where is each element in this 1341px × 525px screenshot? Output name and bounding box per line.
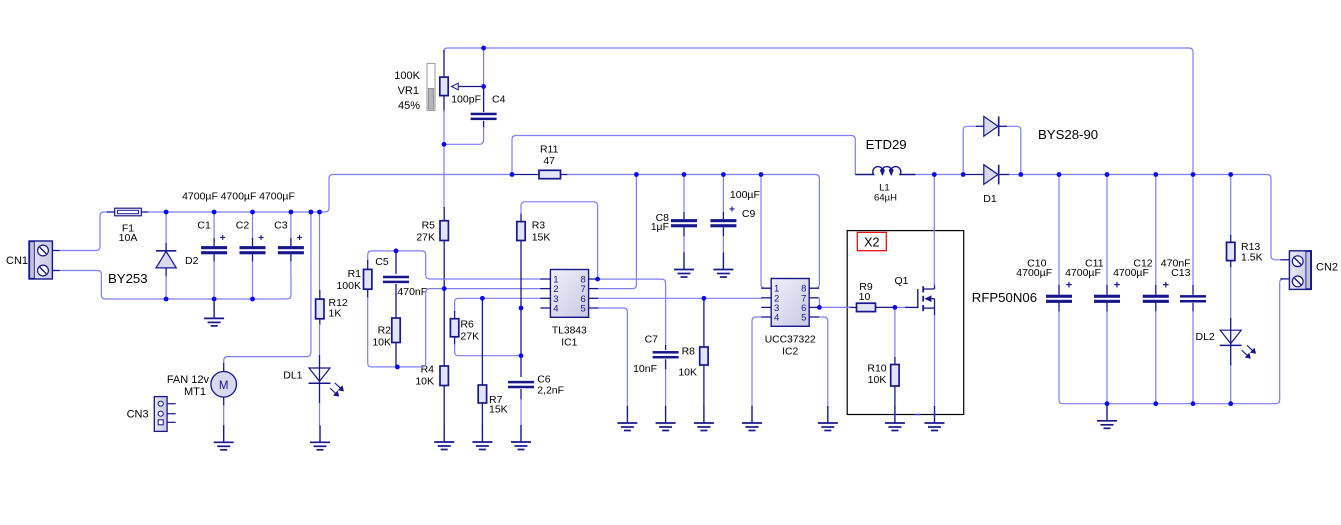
- ground C9: [722, 253, 724, 270]
- slider widget VR1: [427, 63, 435, 110]
- capacitor C2 4700uF: [252, 238, 254, 246]
- wire IC1 pin4 to C6: [520, 308, 522, 377]
- ground R4: [443, 425, 445, 442]
- ground IC2 pin5: [827, 406, 829, 423]
- junction C12 top: [1153, 172, 1158, 177]
- connector CN2: [1280, 251, 1311, 290]
- wire D2 anode to rail: [165, 276, 167, 299]
- svg-text:10nF: 10nF: [633, 363, 657, 375]
- svg-text:+: +: [258, 233, 264, 244]
- junction D1 cathode: [1018, 172, 1023, 177]
- wire fan to ground: [223, 405, 225, 426]
- ground input: [213, 301, 215, 318]
- capacitor C9 100uF: [722, 212, 724, 219]
- svg-text:C2: C2: [236, 219, 250, 231]
- label box X2: [857, 232, 886, 250]
- svg-text:27K: 27K: [460, 331, 479, 343]
- junction VCC IC1: [634, 172, 639, 177]
- resistor R10 10K: [894, 307, 896, 358]
- resistor R1 100K: [367, 260, 369, 269]
- motor MT1 fan: [223, 363, 225, 372]
- svg-text:C13: C13: [1171, 267, 1190, 279]
- ground R8: [703, 406, 705, 423]
- svg-text:C7: C7: [645, 334, 659, 346]
- capacitor C13 470nF: [1192, 285, 1194, 295]
- wire Q1 drain to rail: [933, 175, 935, 287]
- connector CN3: [154, 397, 175, 432]
- wire VR1 bottom node: [443, 110, 445, 208]
- wire CN1 pin1 to fuse F1: [60, 212, 109, 251]
- wire IC1 pin5 to ground: [598, 308, 627, 407]
- wire output bottom rail: [1107, 279, 1284, 404]
- junction R8 top: [702, 296, 707, 301]
- wire C9 bottom: [722, 236, 724, 253]
- wire C8 bottom: [683, 236, 685, 253]
- resistor R11 47: [512, 174, 539, 176]
- junction Q1 gate: [893, 305, 898, 310]
- wire input bottom rail: [166, 276, 291, 299]
- svg-text:DL1: DL1: [283, 369, 302, 381]
- junction fan tap: [309, 210, 314, 215]
- svg-text:Q1: Q1: [895, 275, 909, 287]
- capacitor C12 4700µF: [1155, 285, 1157, 295]
- resistor R3 15K: [520, 213, 522, 222]
- ground output: [1106, 404, 1108, 421]
- stray dash on X2 bottom edge: [915, 414, 921, 416]
- svg-text:+: +: [1066, 280, 1072, 292]
- capacitor C3 4700uF: [290, 238, 292, 246]
- diode D2: [165, 243, 167, 251]
- svg-text:4700µF: 4700µF: [1065, 267, 1101, 279]
- junction C1 bottom: [212, 297, 217, 302]
- svg-text:CN3: CN3: [127, 409, 149, 421]
- junction R12 top: [317, 210, 322, 215]
- capacitor C1 4700uF: [213, 238, 215, 246]
- junction R13 top: [1228, 172, 1233, 177]
- svg-text:+: +: [297, 233, 303, 244]
- capacitor C10 4700µF: [1058, 285, 1060, 295]
- wire C4 bottom to VR1 bottom: [444, 127, 484, 144]
- svg-text:4: 4: [553, 304, 558, 315]
- junction C12 bottom: [1153, 401, 1158, 406]
- svg-text:DL2: DL2: [1196, 331, 1215, 343]
- svg-text:1K: 1K: [329, 308, 342, 320]
- svg-text:R2: R2: [378, 325, 392, 337]
- wire C11 top: [1106, 175, 1108, 287]
- junction C8 top: [682, 172, 687, 177]
- wire C2 top lead: [252, 212, 254, 239]
- wire crossing X2 bottom edge at R10 ground: [894, 412, 896, 418]
- LED DL2: [1230, 318, 1232, 366]
- wire C3 top lead: [290, 212, 292, 239]
- wire IC1 pin8 to C7: [598, 279, 666, 346]
- diode D1 lower: [963, 174, 984, 176]
- svg-text:M: M: [219, 380, 229, 392]
- ground R10: [894, 406, 896, 423]
- resistor R9 10: [850, 306, 857, 308]
- junction C3 top: [289, 210, 294, 215]
- svg-text:TL3843: TL3843: [552, 326, 587, 337]
- ground Q1 source: [934, 406, 936, 423]
- junction Q1 drain: [932, 172, 937, 177]
- svg-text:15K: 15K: [489, 404, 508, 416]
- wire D1 bypass upper branch: [963, 126, 977, 174]
- junction R2 bottom: [395, 365, 400, 370]
- svg-text:MT1: MT1: [184, 386, 206, 398]
- svg-text:4700µF: 4700µF: [182, 191, 218, 203]
- svg-text:IC2: IC2: [782, 347, 798, 358]
- ground DL1: [319, 425, 321, 442]
- svg-text:IC1: IC1: [561, 338, 577, 349]
- wire R2 bottom to IC1 pin2: [397, 289, 541, 367]
- wire R1 bottom: [368, 297, 398, 367]
- svg-text:5: 5: [801, 313, 806, 324]
- svg-text:45%: 45%: [398, 100, 420, 112]
- junction C2 top: [250, 210, 255, 215]
- svg-text:5: 5: [581, 304, 586, 315]
- svg-text:ETD29: ETD29: [866, 137, 907, 152]
- svg-text:BY253: BY253: [108, 271, 148, 286]
- ground IC2 pin4: [751, 406, 753, 423]
- svg-text:CN2: CN2: [1316, 262, 1338, 274]
- junction R6 bottom: [519, 353, 524, 358]
- diode D1 upper: [976, 125, 984, 127]
- svg-text:2,2nF: 2,2nF: [537, 385, 564, 397]
- junction R7 top: [480, 296, 485, 301]
- ground R7: [481, 425, 483, 442]
- wire R13 to DL2: [1230, 267, 1232, 320]
- wire IC2 pin6 to R9: [819, 306, 851, 308]
- svg-text:FAN 12v: FAN 12v: [167, 374, 210, 386]
- wire R6 bottom to C6: [455, 344, 521, 356]
- svg-text:100K: 100K: [394, 70, 420, 82]
- connector CN1: [29, 241, 60, 279]
- wire C10 bottom to bottom rail: [1059, 311, 1107, 404]
- wire C13 bottom: [1192, 311, 1194, 404]
- wire IC2 pin4 to ground: [752, 317, 761, 407]
- wire C10 top: [1058, 175, 1060, 287]
- svg-text:100K: 100K: [336, 280, 361, 292]
- wire C11 bottom: [1106, 311, 1108, 404]
- wire crossing X2 top edge at Q1 drain: [933, 228, 935, 234]
- junction C4 top: [481, 46, 486, 51]
- wire C1 bottom lead: [213, 261, 215, 299]
- junction IC2 VDD: [759, 172, 764, 177]
- op-amp U2 UCC37322 IC2 body: [761, 279, 819, 327]
- wire DL1 to ground: [319, 403, 321, 426]
- ground C8: [683, 253, 685, 270]
- wire C3 bottom lead: [290, 261, 292, 277]
- wire C1 top lead: [213, 212, 215, 239]
- svg-text:C5: C5: [375, 256, 389, 268]
- resistor R6 27K: [454, 311, 456, 319]
- svg-text:R6: R6: [460, 319, 474, 331]
- resistor R5 27K: [443, 207, 445, 221]
- wire top feedback net: [444, 48, 1193, 172]
- transistor Q1 RFP50N06: [905, 306, 918, 308]
- svg-text:10K: 10K: [868, 374, 887, 386]
- junction C13 bottom: [1191, 401, 1196, 406]
- svg-text:1.5K: 1.5K: [1241, 252, 1263, 264]
- capacitor C5 470nF: [395, 251, 397, 274]
- ground C6: [520, 425, 522, 442]
- svg-text:R5: R5: [422, 220, 436, 232]
- subcircuit box X2: [847, 231, 964, 415]
- svg-text:+: +: [729, 205, 735, 216]
- wire L1 to Q1 drain node: [915, 174, 963, 176]
- svg-text:4700µF: 4700µF: [1113, 267, 1149, 279]
- svg-text:64µH: 64µH: [874, 193, 897, 204]
- wire C2 bottom lead: [252, 261, 254, 299]
- wire R1 top: [368, 251, 396, 261]
- capacitor C8 1uF: [683, 212, 685, 219]
- svg-text:RFP50N06: RFP50N06: [972, 290, 1037, 305]
- resistor R2 10K: [395, 294, 397, 318]
- svg-text:VR1: VR1: [398, 85, 419, 97]
- svg-text:15K: 15K: [532, 232, 551, 244]
- wire fan to rail: [224, 212, 311, 364]
- junction C9 top: [721, 172, 726, 177]
- svg-text:10K: 10K: [678, 367, 697, 379]
- resistor R7 15K: [481, 298, 483, 385]
- junction IC2 out: [817, 305, 822, 310]
- svg-text:C4: C4: [492, 94, 506, 106]
- wire C9 top: [722, 175, 724, 214]
- svg-text:10A: 10A: [119, 232, 138, 244]
- junction C13 top: [1191, 172, 1196, 177]
- junction C2 bottom: [250, 297, 255, 302]
- wire crossing X2 left edge at R9: [844, 306, 850, 308]
- inductor L1 64uH: [855, 167, 916, 175]
- LED DL1: [319, 355, 321, 404]
- junction C11 bottom: [1105, 401, 1110, 406]
- wire main rail left: [333, 174, 512, 176]
- junction C6 top: [519, 306, 524, 311]
- wire gate node to Q1: [895, 306, 906, 308]
- junction C1 top: [212, 210, 217, 215]
- potentiometer VR1: [443, 50, 445, 77]
- resistor R4 10K: [443, 289, 445, 366]
- wire IC2 pin1 to rail: [761, 175, 772, 289]
- wire Q1 source down: [934, 315, 936, 407]
- svg-text:X2: X2: [864, 235, 879, 249]
- svg-text:100µF: 100µF: [730, 189, 760, 201]
- svg-text:R10: R10: [867, 363, 886, 375]
- junction IC1 pin8: [595, 277, 600, 282]
- capacitor C6 2.2nF: [508, 381, 534, 384]
- wire crossing X2 bottom edge at Q1 source: [934, 412, 936, 418]
- svg-text:4700µF: 4700µF: [259, 191, 295, 203]
- capacitor C4 100pF: [483, 87, 485, 113]
- wire R11 junction to L1 net: [512, 136, 855, 175]
- junction VR1 wiper: [481, 84, 486, 89]
- svg-text:27K: 27K: [416, 232, 435, 244]
- wire input top rail: [148, 175, 333, 213]
- wire D2 cathode from rail: [165, 212, 167, 244]
- wire C13 top: [1192, 175, 1194, 287]
- svg-text:C1: C1: [197, 219, 211, 231]
- svg-text:D2: D2: [185, 255, 199, 267]
- wire R12 to DL1: [319, 324, 321, 356]
- svg-text:R1: R1: [348, 268, 362, 280]
- junction C10 top: [1057, 172, 1062, 177]
- svg-text:47: 47: [543, 155, 555, 167]
- svg-text:D1: D1: [983, 193, 997, 205]
- wire D1 to output rail: [1009, 174, 1021, 176]
- wire C6 bottom: [520, 399, 522, 426]
- wire C12 top: [1155, 175, 1157, 287]
- wire R13 top: [1230, 175, 1232, 237]
- resistor R13 1.5K: [1230, 235, 1232, 242]
- wire IC2 pin5 to ground: [819, 317, 828, 407]
- svg-text:R4: R4: [421, 364, 435, 376]
- wire IC2 pin7 to pin6: [818, 298, 821, 308]
- wire C8 top: [683, 175, 685, 214]
- svg-text:C9: C9: [742, 208, 756, 220]
- svg-text:4700µF: 4700µF: [1016, 267, 1052, 279]
- wire VR1 wiper to C4: [481, 86, 484, 88]
- wire R3 top to IC1 pin8: [521, 202, 598, 279]
- junction VR1 bottom: [442, 142, 447, 147]
- ground fan: [223, 425, 225, 442]
- svg-text:4: 4: [774, 313, 779, 324]
- svg-text:+: +: [1114, 280, 1120, 292]
- svg-text:C3: C3: [274, 219, 288, 231]
- wire C12 bottom: [1155, 311, 1157, 404]
- wire IC1 pin6 to IC2 pin2: [598, 297, 762, 299]
- svg-text:+: +: [220, 233, 226, 244]
- wire C7 bottom: [665, 369, 667, 407]
- wire output rail: [1021, 175, 1281, 260]
- wire IC1 pin7 to VCC rail: [598, 175, 636, 289]
- svg-text:4700µF: 4700µF: [221, 191, 257, 203]
- capacitor C11 4700µF: [1106, 285, 1108, 295]
- junction R11 left: [510, 172, 515, 177]
- ground IC1 pin5: [626, 406, 628, 423]
- junction C11 top: [1105, 172, 1110, 177]
- svg-text:10K: 10K: [372, 337, 391, 349]
- capacitor C7 10nF: [665, 345, 667, 350]
- svg-text:10: 10: [859, 291, 871, 303]
- op-amp U1 TL3843 IC1 body: [540, 270, 598, 318]
- svg-text:R11: R11: [540, 143, 559, 155]
- svg-text:10K: 10K: [415, 376, 434, 388]
- junction C5 top: [394, 249, 399, 254]
- junction D1 anode: [961, 172, 966, 177]
- junction DL2 bottom: [1228, 401, 1233, 406]
- junction D2 anode: [164, 297, 169, 302]
- svg-text:CN1: CN1: [6, 255, 28, 267]
- svg-text:R3: R3: [532, 220, 546, 232]
- svg-text:BYS28-90: BYS28-90: [1038, 127, 1098, 142]
- ground C7: [665, 406, 667, 423]
- wire C5 to IC1 pin1: [396, 251, 541, 279]
- junction R5 bottom: [442, 286, 447, 291]
- svg-text:+: +: [1163, 280, 1169, 292]
- wire DL2 bottom: [1230, 365, 1232, 404]
- svg-text:470nF: 470nF: [397, 286, 427, 298]
- wire IC1 pin3 net: [455, 298, 541, 312]
- wire R12 top: [319, 212, 321, 291]
- svg-text:R8: R8: [682, 345, 696, 357]
- svg-text:100pF: 100pF: [451, 94, 481, 106]
- svg-text:UCC37322: UCC37322: [765, 335, 816, 346]
- fuse F1: [107, 211, 115, 213]
- wire main rail right: [567, 175, 819, 289]
- svg-text:1µF: 1µF: [651, 221, 669, 233]
- wire CN1 pin2 to bottom rail: [60, 271, 167, 300]
- resistor R12: [319, 290, 321, 299]
- wire C4 top: [483, 48, 485, 87]
- resistor R8 10K: [703, 298, 705, 347]
- junction F1-D2: [164, 210, 169, 215]
